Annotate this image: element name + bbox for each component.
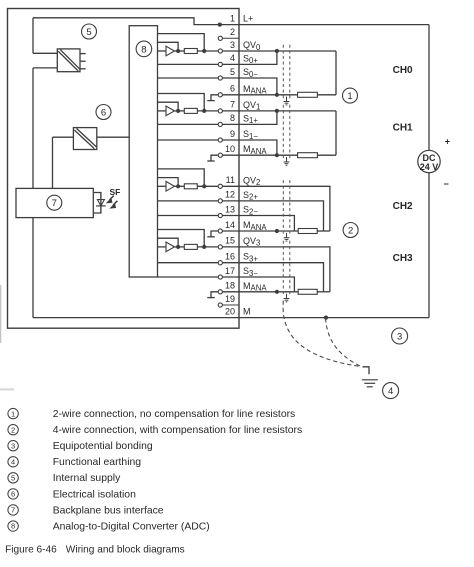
legend item 8 xyxy=(8,521,18,531)
wire to terminal QV3 xyxy=(197,246,218,248)
svg-text:3: 3 xyxy=(11,441,15,450)
svg-text:M: M xyxy=(243,307,251,317)
terminal 16 S3+ xyxy=(218,261,222,265)
legend item 2 xyxy=(8,424,18,434)
ground shield CH3 xyxy=(286,294,288,299)
electrical isolation U6 (isolation barrier) xyxy=(73,128,96,150)
node terminal 1 L+ junction xyxy=(218,23,222,27)
wire CH0 MANA external xyxy=(239,94,298,96)
wire CH1 jumper QV-S+ xyxy=(239,111,277,125)
svg-text:5: 5 xyxy=(86,27,91,38)
svg-text:2: 2 xyxy=(11,425,15,434)
node CH1 QV junction xyxy=(275,109,279,113)
wire S3- sense xyxy=(158,276,219,278)
wire M to DC supply xyxy=(239,317,429,319)
wire to terminal QV0 xyxy=(197,50,218,52)
svg-text:4: 4 xyxy=(230,53,235,63)
wire QV3 drive xyxy=(158,246,167,248)
svg-text:Functional earthing: Functional earthing xyxy=(53,457,142,468)
svg-text:4: 4 xyxy=(388,386,393,397)
svg-text:+: + xyxy=(445,137,450,147)
node amp output junction xyxy=(176,245,180,249)
wire S2- sense xyxy=(158,215,219,217)
svg-text:SF: SF xyxy=(110,187,121,197)
node CH2 MANA junction xyxy=(275,229,279,233)
svg-text:Internal supply: Internal supply xyxy=(53,473,121,484)
ground hook MANA terminal 14 xyxy=(211,231,218,237)
wire S0- sense xyxy=(158,77,219,79)
svg-text:16: 16 xyxy=(225,252,235,262)
svg-text:4-wire connection, with compen: 4-wire connection, with compensation for… xyxy=(53,425,303,436)
wire CH2 feedback lower (ADC to amp output) xyxy=(158,178,179,187)
legend item 4 xyxy=(8,457,18,467)
terminal 4 S0+ xyxy=(218,62,222,66)
svg-text:4: 4 xyxy=(11,457,15,466)
resistor R0 (output resistor) xyxy=(184,49,197,54)
wire L+ to DC supply xyxy=(239,24,429,26)
terminal 15 QV3 xyxy=(218,245,222,249)
terminal 7 QV1 xyxy=(218,109,222,113)
terminal 8 S1+ xyxy=(218,122,222,126)
scan artifact left edge xyxy=(0,285,1,343)
wire CH3 S+ sense external xyxy=(239,263,324,292)
svg-text:L+: L+ xyxy=(243,14,253,24)
node CH1 MANA junction xyxy=(275,153,279,157)
svg-text:Analog-to-Digital Converter (A: Analog-to-Digital Converter (ADC) xyxy=(53,521,210,532)
svg-text:CH0: CH0 xyxy=(393,65,413,76)
wire amp out xyxy=(175,110,185,112)
wire CH0 loop vertical xyxy=(335,51,337,95)
pin stubs U5 outputs xyxy=(80,53,86,55)
node M equipotential junction xyxy=(324,316,328,320)
op-amp A1 (output buffer) xyxy=(166,106,175,116)
svg-text:7: 7 xyxy=(230,100,235,110)
wire amp out xyxy=(175,50,185,52)
wire DC/DC input pair xyxy=(33,52,57,54)
wire CH3 QV3 external xyxy=(239,247,330,292)
wire U7 to U6 xyxy=(53,136,74,138)
cable shield CH3 (dashed) xyxy=(282,241,284,296)
wire CH1 jumper S- to MANA xyxy=(239,140,277,155)
resistor CH2 load (transducer) xyxy=(298,229,317,234)
wire CH2 QV2 external xyxy=(239,186,330,231)
resistor CH0 load (transducer) xyxy=(298,92,318,97)
module boundary box xyxy=(8,9,240,329)
label 3 (equipotential bonding) xyxy=(392,328,408,344)
cable shield CH0 (dashed) xyxy=(282,45,284,99)
svg-text:8: 8 xyxy=(141,44,146,55)
ground shield CH2 xyxy=(286,233,288,238)
svg-text:CH2: CH2 xyxy=(393,201,413,212)
terminal 12 S2+ xyxy=(218,199,222,203)
ground shield CH0 xyxy=(286,97,288,102)
wire QV1 drive xyxy=(158,110,167,112)
wire S2+ sense xyxy=(158,200,219,202)
LED SF (group fault indicator) xyxy=(100,193,102,214)
svg-text:Wiring and block diagrams: Wiring and block diagrams xyxy=(66,545,185,556)
terminal 2 (not connected) xyxy=(218,36,222,40)
wire CH2 MANA external xyxy=(239,230,298,232)
wire QV0 drive xyxy=(158,50,167,52)
wire LED bracket xyxy=(93,193,101,214)
terminal 19 (not connected) xyxy=(218,303,222,307)
label 4 (functional earthing) xyxy=(383,383,399,399)
node amp output junction xyxy=(176,109,180,113)
wire amp out xyxy=(175,185,185,187)
svg-text:Figure 6-46: Figure 6-46 xyxy=(5,545,57,556)
svg-text:11: 11 xyxy=(226,175,235,185)
wire CH3 feedback upper (ADC to QV3 node) xyxy=(158,230,205,247)
wire equipotential bonding dashed (shield to earth) xyxy=(283,301,361,367)
svg-text:−: − xyxy=(444,179,449,189)
svg-text:8: 8 xyxy=(11,522,15,531)
svg-text:CH1: CH1 xyxy=(393,122,413,133)
svg-text:19: 19 xyxy=(225,294,235,304)
wire DC bus upper xyxy=(428,25,430,151)
terminal 14 MANA xyxy=(218,229,222,233)
wire amp out xyxy=(175,246,185,248)
label 7 (backplane bus interface) xyxy=(47,195,62,210)
cable shield CH2 (dashed) xyxy=(282,180,284,234)
svg-text:14: 14 xyxy=(225,220,235,230)
wire CH2 feedback upper (ADC to QV2 node) xyxy=(158,169,205,186)
node QV1 feedback junction xyxy=(202,109,206,113)
svg-text:5: 5 xyxy=(230,67,235,77)
svg-text:10: 10 xyxy=(225,144,235,154)
wire CH3 feedback lower (ADC to amp output) xyxy=(158,238,179,247)
ADC U8 (analog-to-digital converter) xyxy=(129,26,157,277)
wire functional earth dashed (M to earth) xyxy=(326,318,361,366)
svg-text:6: 6 xyxy=(230,84,235,94)
power source DC 24V xyxy=(418,150,440,172)
wire CH1 feedback lower (ADC to amp output) xyxy=(158,102,179,111)
svg-text:6: 6 xyxy=(11,490,15,499)
terminal 9 S1- xyxy=(218,138,222,142)
svg-text:9: 9 xyxy=(230,129,235,139)
terminal 10 MANA xyxy=(218,153,222,157)
internal supply U5 (DC/DC converter) xyxy=(57,49,80,72)
node amp output junction xyxy=(176,184,180,188)
wire CH2 S+ sense external xyxy=(239,201,324,231)
node QV0 feedback junction xyxy=(202,49,206,53)
svg-text:2: 2 xyxy=(348,225,353,236)
backplane bus interface U7 xyxy=(16,188,93,217)
label 8 (ADC) xyxy=(136,41,152,57)
node QV3 feedback junction xyxy=(202,245,206,249)
resistor R2 (output resistor) xyxy=(184,184,197,189)
terminal 17 S3- xyxy=(218,275,222,279)
svg-text:1: 1 xyxy=(347,91,352,102)
wire CH1 QV1 external xyxy=(239,110,336,112)
wire CH2 S- sense external xyxy=(239,216,294,232)
node CH3 MANA junction xyxy=(275,290,279,294)
svg-text:13: 13 xyxy=(225,204,235,214)
svg-text:Backplane bus interface: Backplane bus interface xyxy=(53,505,164,516)
wire CH0 jumper S- to MANA xyxy=(239,78,277,95)
wire isolation link vertical xyxy=(52,137,54,188)
svg-text:18: 18 xyxy=(225,281,235,291)
legend item 5 xyxy=(8,473,18,483)
terminal 13 S2- xyxy=(218,213,222,217)
wire CH0 feedback lower (ADC to amp output) xyxy=(158,42,179,51)
wire S1+ sense xyxy=(158,123,219,125)
resistor R1 (output resistor) xyxy=(184,108,197,113)
svg-text:Electrical isolation: Electrical isolation xyxy=(53,489,136,500)
wire S3+ sense xyxy=(158,262,219,264)
label 5 (internal supply) xyxy=(82,24,97,39)
svg-text:1: 1 xyxy=(230,13,235,23)
svg-text:5: 5 xyxy=(11,474,15,483)
svg-text:CH3: CH3 xyxy=(393,253,413,264)
legend item 7 xyxy=(8,505,18,515)
wire DC bus lower xyxy=(428,173,430,318)
svg-text:2-wire connection, no compensa: 2-wire connection, no compensation for l… xyxy=(53,409,296,420)
ground shield CH1 xyxy=(286,157,288,162)
svg-text:8: 8 xyxy=(230,113,235,123)
wire M internal (terminal 20 return) xyxy=(33,317,239,319)
terminal 3 QV0 xyxy=(218,49,222,53)
label 1 (2-wire connection) xyxy=(343,88,358,103)
svg-text:2: 2 xyxy=(230,27,235,37)
wire U6 to ADC U8 xyxy=(97,136,129,138)
resistor CH3 load (transducer) xyxy=(298,289,317,294)
ground functional earth xyxy=(363,367,370,374)
svg-text:3: 3 xyxy=(397,331,402,342)
resistor CH1 load (transducer) xyxy=(298,153,318,158)
node CH0 MANA junction xyxy=(275,93,279,97)
legend item 6 xyxy=(8,489,18,499)
op-amp A0 (output buffer) xyxy=(166,46,175,56)
svg-text:1: 1 xyxy=(11,409,15,418)
svg-text:7: 7 xyxy=(11,506,15,515)
wire to terminal QV2 xyxy=(197,185,218,187)
ground hook MANA terminal 6 xyxy=(211,95,218,101)
legend item 3 xyxy=(8,441,18,451)
svg-text:Equipotential bonding: Equipotential bonding xyxy=(53,441,153,452)
node CH0 QV junction xyxy=(275,49,279,53)
svg-text:3: 3 xyxy=(230,40,235,50)
label 2 (4-wire connection) xyxy=(343,223,358,238)
ground hook MANA terminal 18 xyxy=(211,292,218,298)
wire CH1 feedback upper (ADC to QV1 node) xyxy=(158,94,205,111)
ground hook MANA terminal 10 xyxy=(211,155,218,161)
svg-text:15: 15 xyxy=(225,236,235,246)
wire internal supply rail left vertical xyxy=(32,18,34,54)
terminal 6 MANA xyxy=(218,93,222,97)
wire to terminal QV1 xyxy=(197,110,218,112)
wire CH0 QV0 external xyxy=(239,50,336,52)
LED arrows xyxy=(110,196,114,200)
node amp output junction xyxy=(176,49,180,53)
cable shield CH1 (dashed) xyxy=(282,105,284,159)
wire CH3 MANA external xyxy=(239,291,298,293)
wire CH3 S- sense external xyxy=(239,277,294,292)
terminal 18 MANA xyxy=(218,290,222,294)
node QV2 feedback junction xyxy=(202,184,206,188)
wire S1- sense xyxy=(158,139,219,141)
resistor R3 (output resistor) xyxy=(184,244,197,249)
svg-text:6: 6 xyxy=(101,107,106,118)
wire CH1 MANA external xyxy=(239,154,298,156)
wire S0+ sense xyxy=(158,63,219,65)
op-amp A3 (output buffer) xyxy=(166,242,175,252)
svg-text:24 V: 24 V xyxy=(420,162,439,172)
terminal 11 QV2 xyxy=(218,184,222,188)
svg-text:7: 7 xyxy=(52,198,57,209)
legend item 1 xyxy=(8,408,18,418)
wire CH0 feedback upper (ADC to QV0 node) xyxy=(158,34,205,51)
wire CH1 loop vertical xyxy=(335,111,337,155)
svg-text:20: 20 xyxy=(225,306,235,316)
op-amp A2 (output buffer) xyxy=(166,182,175,192)
wire QV2 drive xyxy=(158,185,167,187)
terminal 5 S0- xyxy=(218,76,222,80)
wire L+ internal feed (terminal 1 to internal supply) xyxy=(33,18,239,25)
wire CH0 jumper QV-S+ xyxy=(239,51,277,64)
label 6 (electrical isolation) xyxy=(96,105,111,120)
svg-text:12: 12 xyxy=(225,190,235,200)
svg-text:17: 17 xyxy=(225,266,235,276)
